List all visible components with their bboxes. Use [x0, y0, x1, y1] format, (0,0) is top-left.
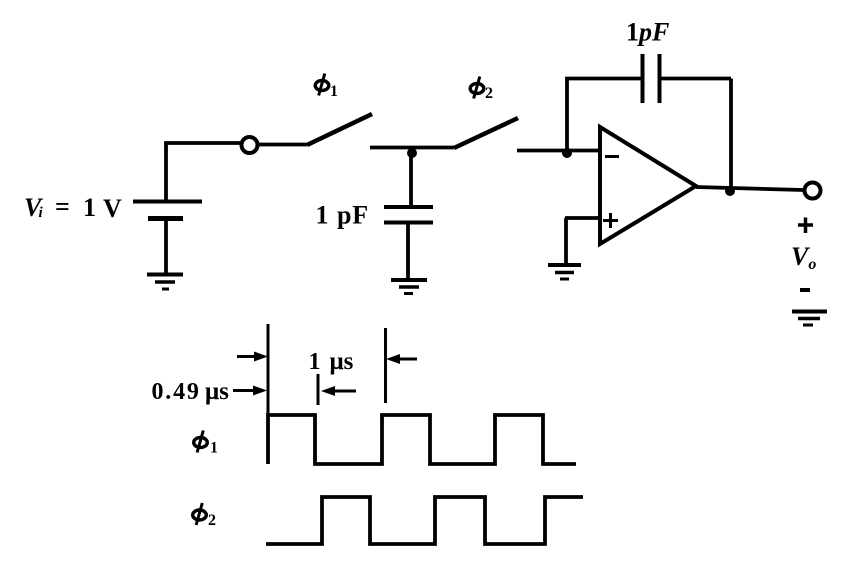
svg-text:i: i [39, 205, 44, 221]
svg-text:1: 1 [309, 349, 321, 375]
svg-text:pF: pF [337, 201, 369, 230]
svg-text:μs: μs [205, 378, 229, 405]
svg-text:1: 1 [316, 201, 329, 230]
svg-text:1: 1 [83, 193, 96, 222]
svg-text:2: 2 [208, 512, 216, 529]
svg-text:V: V [103, 194, 122, 223]
svg-text:=: = [55, 192, 70, 221]
svg-text:2: 2 [485, 85, 493, 102]
svg-text:1: 1 [330, 83, 338, 100]
svg-text:1: 1 [210, 440, 218, 457]
svg-text:0.49: 0.49 [152, 379, 201, 405]
svg-text:1pF: 1pF [626, 18, 669, 47]
svg-text:Vo: Vo [791, 242, 816, 273]
svg-text:μs: μs [330, 348, 354, 375]
